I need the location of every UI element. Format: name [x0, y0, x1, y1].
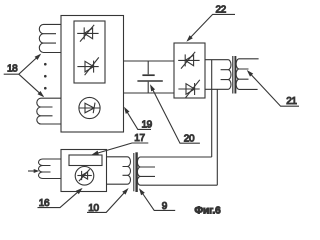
transformer 9/10 core: [133, 153, 135, 191]
thyristor VS2 (bottom symbol in inner box, pointing right): [77, 57, 98, 75]
svg-text:18: 18: [7, 64, 18, 75]
circled thyristor 16 inside unit 17: [75, 167, 94, 186]
wire: vertical feed from top link down to transformer 9 secondary lead: [211, 60, 213, 157]
ellipsis dots between winding groups: [44, 63, 47, 90]
circled diode VD1 (bottom of unit 19): [79, 97, 100, 118]
unit box 19 (generator-rectifier block): [61, 16, 124, 133]
wire: vertical feed from bottom link down to transformer 9 secondary lead: [216, 89, 218, 185]
thyristor box 22: [174, 43, 205, 98]
label 22 with leader and arrowhead: [186, 5, 235, 42]
label 17 with leader and arrowhead: [92, 133, 149, 155]
label 9 with leader and arrowhead: [139, 188, 175, 212]
inner rectifier box inside unit 19: [74, 21, 105, 83]
thyristor VS4 (bottom of box 22, pointing right): [178, 80, 199, 98]
control unit box 17: [61, 150, 107, 192]
wire: bottom link unit 19 to box 22: [124, 92, 175, 94]
inner rectangle inside unit 17: [69, 155, 102, 166]
label 16 with leader and arrowhead: [38, 188, 83, 209]
winding 18 upper phase group with leads to unit 19: [39, 24, 61, 52]
thyristor VS3 (top of box 22, pointing left): [178, 52, 199, 69]
label 18 with fork leader and two arrowheads: [4, 54, 45, 98]
input winding (left of unit 17) with leads: [39, 159, 61, 179]
capacitor C (20) across the link wires: [137, 61, 162, 93]
transformer 21 secondary winding with output leads: [236, 59, 259, 90]
transformer 10 primary winding (left of core) with leads to box 17: [107, 157, 131, 184]
transformer 21 core: [232, 56, 234, 94]
input arrow into winding: [28, 169, 39, 173]
transformer 21 primary winding (bulges toward core) with leads from box 22: [205, 60, 231, 90]
svg-text:19: 19: [142, 119, 153, 130]
label 19 with leader and arrowhead: [124, 107, 153, 131]
svg-text:21: 21: [286, 96, 297, 107]
transformer 9 secondary winding (right of core, bulges toward core): [137, 157, 217, 185]
svg-text:Фиг.6: Фиг.6: [195, 205, 222, 216]
label 20 with leader and arrowhead: [150, 84, 200, 144]
thyristor VS1 (top symbol in inner box, pointing left): [77, 25, 98, 42]
label 21 with leader and arrowhead: [247, 70, 299, 107]
label 10 with leader and arrowhead: [87, 188, 129, 214]
winding 18 lower phase group with leads to unit 19: [37, 98, 61, 124]
wire: top link unit 19 to box 22: [124, 60, 175, 62]
svg-text:17: 17: [134, 133, 145, 144]
